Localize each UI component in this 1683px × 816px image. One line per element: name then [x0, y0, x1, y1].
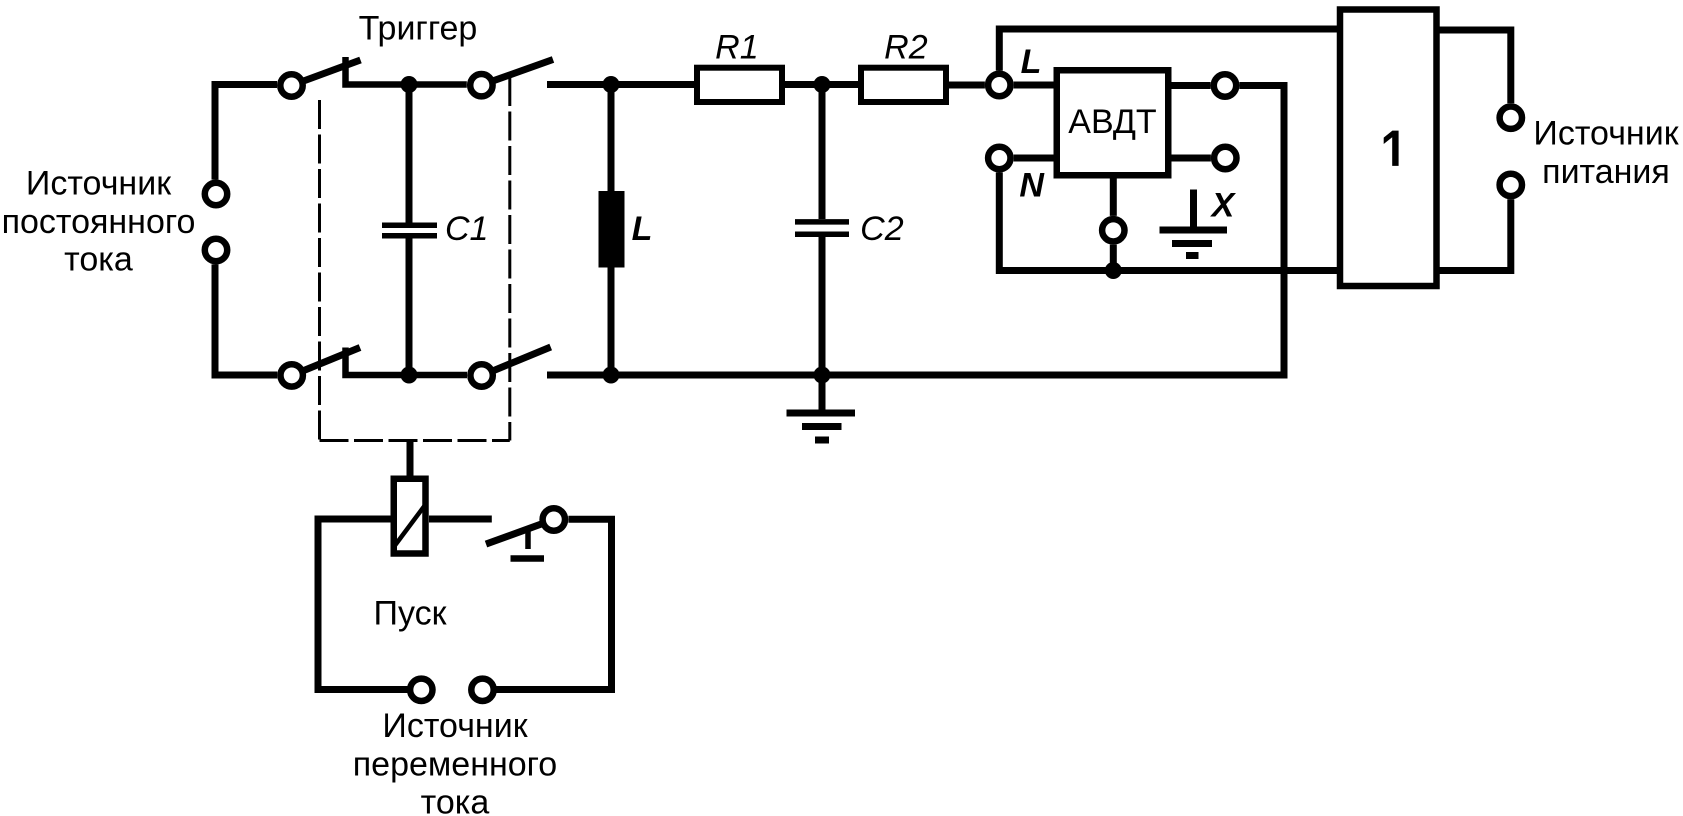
ground bar 3: [815, 437, 829, 444]
terminal L: [988, 74, 1010, 96]
switch S1 fixed contact post and wire: top rail S1 to S2: [346, 57, 467, 85]
trigger dashed box right side: [508, 77, 511, 441]
svg-text:R2: R2: [884, 29, 928, 67]
unit 1 box: [1340, 10, 1437, 287]
wire: trigger box to relay coil: [407, 441, 414, 476]
svg-text:C2: C2: [860, 210, 904, 248]
svg-text:Источник: Источник: [1533, 114, 1679, 152]
svg-text:переменного: переменного: [353, 746, 557, 784]
ground X stem: [1190, 190, 1197, 231]
ground bar 1: [787, 410, 856, 417]
trigger dashed box left side: [318, 100, 321, 441]
capacitor C1 plates: [382, 223, 437, 229]
ground X bar 2: [1172, 240, 1212, 247]
terminal: АВДТ out-L: [1214, 74, 1236, 96]
terminal: supply lower: [1500, 174, 1522, 196]
wire: terminal N to АВДТ: [1014, 155, 1056, 162]
wire: unit 1 right top to supply terminal: [1439, 30, 1511, 103]
wire: АВДТ out-N to terminal: [1169, 155, 1211, 162]
node: PE junction on N-link: [1105, 262, 1122, 279]
svg-text:X: X: [1210, 187, 1237, 225]
switch S5 contact tick: [525, 532, 531, 550]
capacitor C2 bottom lead: [819, 237, 826, 375]
resistor R1: [697, 68, 782, 102]
ground bar 2: [802, 423, 842, 430]
switch S3 fixed contact post and wire: bottom rail S3 to S4: [346, 348, 468, 376]
wire: terminal L to АВДТ: [1014, 82, 1056, 89]
switch S3 pivot (trigger, bottom-left): [281, 364, 303, 386]
switch S4 blade: [494, 347, 551, 371]
RCBO unit АВДТ box: [1057, 70, 1169, 175]
trigger dashed box bottom side: [320, 439, 510, 442]
resistor R2: [861, 68, 946, 102]
svg-text:постоянного: постоянного: [2, 203, 196, 241]
wire: R1 to node A: [782, 81, 861, 88]
switch S5 pivot: [543, 508, 565, 530]
terminal: supply upper: [1500, 107, 1522, 129]
node: L bottom junction: [603, 367, 620, 384]
inductor L bottom lead: [608, 268, 615, 376]
capacitor C2 top lead: [819, 85, 826, 220]
terminal N: [988, 147, 1010, 169]
АВДТ PE terminal: [1102, 219, 1124, 241]
АВДТ PE lead: [1110, 179, 1117, 216]
wire: terminal N down and across to unit 1: [999, 172, 1338, 270]
svg-text:C1: C1: [445, 210, 488, 248]
wire: terminal L up and across to unit 1: [999, 29, 1338, 71]
wire: relay coil right to switch S5: [429, 516, 492, 523]
switch S2 blade: [494, 60, 554, 81]
svg-text:N: N: [1019, 167, 1045, 205]
node: C1 bottom junction: [401, 367, 418, 384]
terminal: AC source left: [410, 679, 432, 701]
wire: DC source lower lead to bottom rail: [215, 264, 277, 375]
wire: АВДТ out-L to terminal: [1169, 82, 1211, 89]
wire: R2 to terminal L: [946, 82, 985, 89]
switch S1 pivot (trigger, top-left): [280, 74, 302, 96]
wire: S5 pivot to AC loop right side: [496, 519, 611, 689]
terminal: DC source lower: [205, 239, 227, 261]
svg-text:тока: тока: [421, 783, 490, 816]
capacitor C2 plates: [795, 219, 849, 225]
svg-text:Источник: Источник: [382, 707, 528, 745]
relay coil K diagonal: [395, 505, 426, 547]
ground X bar 3: [1186, 252, 1199, 259]
node A: R1/C2/R2 junction: [814, 76, 831, 93]
wire: DC source upper lead (top-left corner): [215, 85, 277, 180]
terminal: АВДТ out-N: [1214, 147, 1236, 169]
label: 1 (unit): [1384, 131, 1399, 166]
svg-text:Источник: Источник: [26, 164, 172, 202]
capacitor C1 top lead: [406, 85, 413, 223]
svg-text:тока: тока: [64, 240, 133, 278]
wire: relay coil left to AC loop: [318, 519, 408, 690]
capacitor C1 bottom lead: [406, 239, 413, 376]
node: L top junction: [603, 76, 620, 93]
switch S4 pivot (trigger, bottom-right): [470, 364, 492, 386]
ground X bar 1: [1160, 227, 1228, 234]
node: C2 bottom junction: [814, 367, 831, 384]
node: C1 top junction: [401, 76, 418, 93]
switch S3 blade: [304, 348, 361, 371]
wire: bottom rail S4 to riser: [547, 372, 1288, 379]
terminal: AC source right: [471, 679, 493, 701]
inductor L body: [599, 191, 625, 268]
switch S2 pivot (trigger, top-right): [470, 74, 492, 96]
svg-text:L: L: [1021, 43, 1042, 81]
inductor L top lead: [608, 85, 615, 192]
svg-text:L: L: [632, 210, 653, 248]
svg-text:Триггер: Триггер: [359, 10, 478, 48]
wire: out-L terminal to bottom rail: [1239, 86, 1284, 376]
wire: supply terminal to unit 1 right bottom: [1439, 199, 1511, 270]
svg-text:питания: питания: [1542, 153, 1670, 191]
svg-text:Пуск: Пуск: [374, 594, 448, 632]
ground (below C2) stem: [819, 375, 826, 410]
wire: PE terminal to junction: [1110, 245, 1117, 271]
relay coil K body: [394, 479, 426, 554]
switch S5 blade: [486, 524, 542, 544]
switch S5 contact bar: [511, 555, 545, 562]
terminal: DC source upper: [205, 183, 227, 205]
svg-text:R1: R1: [715, 29, 758, 67]
svg-text:АВДТ: АВДТ: [1068, 103, 1156, 141]
switch S1 blade: [304, 60, 361, 81]
wire: top rail S2 to R1: [547, 81, 697, 88]
